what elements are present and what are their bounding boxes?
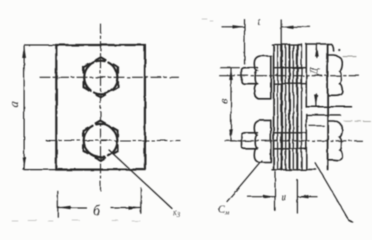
leader line to k3 label — [109, 150, 172, 209]
dimension t left extension — [244, 20, 246, 64]
svg-text:Д: Д — [309, 67, 321, 76]
top bolt head (three scallops) — [329, 55, 343, 95]
svg-text:t: t — [257, 16, 261, 28]
scan artifact dot above top head — [338, 49, 340, 51]
upper bolt horizontal centerline — [40, 76, 179, 78]
dimension b left arrowhead — [58, 206, 70, 210]
dimension b line left part — [58, 207, 86, 209]
dimension a top extension line — [25, 44, 57, 46]
washer top edge extended (bottom bolt zone) — [306, 114, 340, 116]
dimension t right arrow — [282, 26, 310, 28]
dimension b right arrowhead — [128, 206, 140, 210]
svg-text:См: См — [218, 205, 229, 217]
upper bolt head chamfer circle — [84, 61, 117, 94]
faint overrun of top head top edge — [343, 56, 356, 58]
dimension i left extension — [274, 172, 276, 212]
dimension v line — [230, 69, 232, 141]
right strap / washer (top bolt zone) — [306, 44, 333, 51]
dimension t left arrow — [222, 26, 244, 28]
dimension v lower arrowhead — [229, 129, 233, 141]
dimension i right arrow — [298, 196, 317, 198]
dimension v top extension — [220, 67, 239, 69]
dimension D line with arrows (washer diameter) — [315, 45, 317, 57]
faint overrun of bottom head top edge — [344, 120, 371, 123]
svg-text:в: в — [218, 98, 230, 103]
dimension i left arrow — [248, 196, 275, 198]
bottom bolt protruding end — [242, 133, 258, 149]
svg-text:к3: к3 — [173, 207, 181, 219]
lower bolt hex head (front) — [83, 121, 118, 161]
dimension a lower arrowhead — [22, 157, 26, 169]
right strap right edge (full height) — [327, 44, 329, 170]
lower bolt horizontal centerline — [46, 140, 180, 142]
lower bolt head chamfer circle — [84, 124, 117, 157]
dimension a line — [23, 46, 25, 169]
bottom bolt nut (side, scalloped) — [254, 120, 271, 162]
top bolt centerline — [220, 75, 359, 77]
plates top edge — [272, 44, 302, 46]
svg-text:б: б — [93, 204, 101, 219]
dimension b left extension line — [57, 191, 59, 216]
leader to bottom-right label — [316, 163, 349, 220]
washer bottom edge — [306, 169, 316, 171]
bottom bolt shank lines — [274, 133, 307, 149]
svg-text:а: а — [7, 102, 21, 108]
top bolt nut (side, scalloped) — [254, 56, 271, 99]
plate front view outline — [56, 45, 145, 170]
top bolt shank lines — [274, 68, 307, 84]
dimension a bottom extension line — [24, 169, 57, 171]
dimension b right extension line — [140, 188, 142, 213]
top bolt protruding end — [242, 68, 258, 84]
svg-text:и: и — [281, 192, 286, 203]
dimension t right extension — [280, 20, 282, 44]
dimension a upper arrowhead — [22, 46, 26, 59]
vertical centerline of plate — [100, 24, 102, 191]
inner dash in bottom washer — [310, 125, 324, 127]
clamped plates section lines — [274, 45, 302, 170]
dimension v bottom extension (dotted) — [231, 140, 248, 142]
dimension b line right part — [111, 207, 140, 209]
dimension i right extension — [296, 180, 298, 213]
plates bottom edge — [272, 169, 307, 171]
bottom bolt head (three scallops) — [329, 121, 343, 160]
bottom-right leader tick — [349, 221, 353, 223]
upper bolt hex head (front) — [84, 57, 119, 97]
right strap left edge (full height) — [305, 44, 307, 170]
washer bottom edge extended — [306, 106, 351, 108]
bottom bolt centerline — [225, 140, 362, 142]
dimension v upper arrowhead — [229, 68, 233, 80]
leader to Cm label — [227, 161, 262, 202]
